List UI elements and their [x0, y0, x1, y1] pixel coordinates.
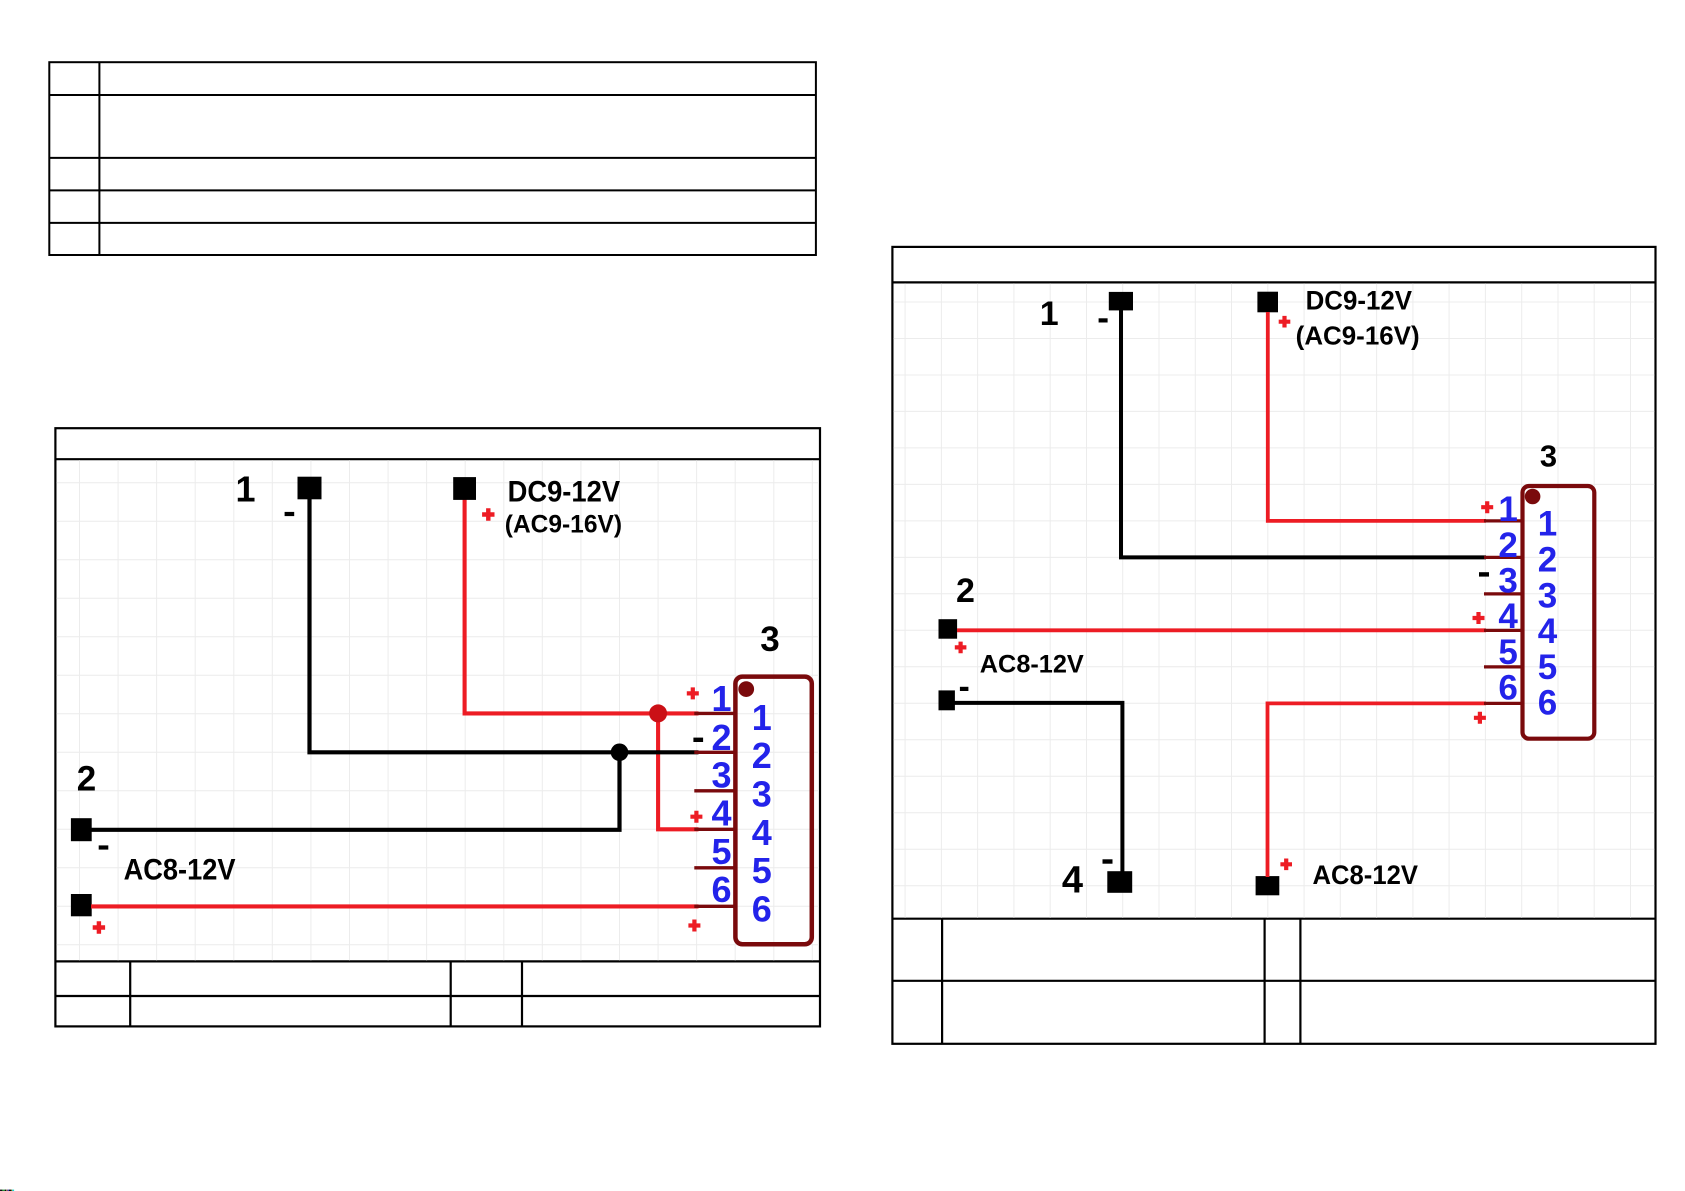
junction (black) on pin2 net: [611, 744, 629, 762]
left schematic sheet frame: [55, 428, 820, 1026]
minus mark at connector 1 (right sheet): [1099, 318, 1108, 322]
svg-text:3: 3: [752, 774, 772, 815]
minus mark at connector 2: [99, 845, 109, 849]
svg-text:6: 6: [711, 869, 731, 910]
svg-text:3: 3: [1538, 576, 1557, 615]
plus mark at pin 4: [690, 811, 702, 823]
AC input pad positive (right sheet bottom): [1256, 876, 1280, 895]
svg-text:1: 1: [1498, 490, 1517, 529]
connector 3 pin stubs: [694, 713, 734, 906]
minus mark at pin 2: [693, 738, 703, 742]
svg-text:DC9-12V: DC9-12V: [508, 475, 620, 508]
right schematic sheet frame: [892, 247, 1655, 1044]
plus mark at connector 2 positive: [93, 921, 105, 933]
pin numbers (inside connector 3): [752, 697, 772, 930]
connector 3 polarity dot: [738, 681, 754, 697]
svg-text:6: 6: [1538, 684, 1557, 723]
svg-text:2: 2: [711, 717, 731, 758]
junction (red) on pin1 net: [649, 704, 667, 722]
minus mark at connector 2 lower pad (right sheet): [960, 687, 969, 691]
connector 1 pad negative (right sheet): [1109, 292, 1133, 311]
svg-text:6: 6: [1498, 669, 1517, 708]
svg-text:5: 5: [711, 831, 731, 872]
connector 2 pad positive (right sheet): [939, 619, 958, 639]
svg-text:4: 4: [1538, 612, 1558, 651]
svg-text:1: 1: [235, 469, 255, 510]
svg-text:5: 5: [752, 850, 772, 891]
wire: connector2 positive to pin 6 (red): [91, 904, 699, 908]
plus mark at DC pad: [482, 508, 494, 520]
connector 3 pin stubs (right sheet): [1484, 521, 1521, 704]
wire: connector2 negative to junction (black): [91, 752, 620, 830]
svg-text:1: 1: [711, 678, 731, 719]
scan artifact strip bottom-left: [0, 1190, 14, 1191]
connector 3 body (right sheet): [1523, 486, 1595, 739]
wire: AC positive to pin 6 (red, right sheet): [1268, 703, 1487, 877]
plus mark at pin 4 (right sheet): [1473, 612, 1485, 624]
plus mark at pin 1 (right sheet): [1481, 501, 1493, 513]
plus mark at DC pad (right sheet): [1279, 316, 1291, 328]
connector 2 lower pad negative (right sheet): [939, 690, 955, 710]
wire: connector1 negative to pin 2 (black): [310, 499, 699, 753]
svg-text:4: 4: [1062, 859, 1083, 901]
connector 4 pad negative: [1107, 871, 1132, 893]
svg-text:4: 4: [752, 812, 772, 853]
svg-text:2: 2: [77, 760, 96, 799]
DC input pad positive (right sheet): [1257, 292, 1278, 313]
wire: connector2 negative to connector 4 (black, right sheet): [955, 703, 1123, 872]
plus mark at pin 1: [687, 687, 699, 699]
connector 2 pad (positive): [71, 894, 92, 916]
svg-text:6: 6: [752, 888, 772, 929]
pin numbers (wire side): [711, 678, 731, 910]
wire: junction to pin 4 (red): [658, 713, 698, 829]
connector 3 polarity dot (right sheet): [1525, 489, 1541, 505]
wire: connector2 positive to pin 4 (red, right sheet): [957, 628, 1486, 632]
minus mark at connector 4: [1103, 859, 1113, 863]
plus mark at pin 6: [688, 920, 700, 932]
svg-text:AC8-12V: AC8-12V: [1313, 860, 1419, 890]
revision table (top left, empty): [49, 62, 816, 255]
wire: connector1 negative to pin 2 (black, right sheet): [1121, 310, 1486, 557]
svg-text:(AC9-16V): (AC9-16V): [505, 511, 622, 539]
svg-text:2: 2: [1538, 541, 1557, 580]
svg-text:2: 2: [752, 735, 772, 776]
svg-text:4: 4: [1498, 597, 1518, 636]
svg-text:3: 3: [711, 755, 731, 796]
svg-text:4: 4: [711, 792, 731, 833]
connector 1 pad (negative): [298, 477, 322, 500]
svg-text:(AC9-16V): (AC9-16V): [1296, 323, 1420, 351]
svg-text:AC8-12V: AC8-12V: [980, 651, 1084, 679]
svg-text:AC8-12V: AC8-12V: [124, 854, 236, 887]
connector 3 body: [735, 677, 811, 945]
pin numbers inside connector 3 (right sheet): [1538, 505, 1558, 723]
svg-text:3: 3: [1498, 562, 1517, 601]
svg-text:2: 2: [956, 572, 975, 610]
svg-text:3: 3: [760, 620, 779, 659]
svg-text:5: 5: [1538, 648, 1557, 687]
svg-text:5: 5: [1498, 633, 1517, 672]
svg-text:1: 1: [1040, 295, 1059, 333]
minus mark at connector 1: [285, 512, 295, 516]
pin numbers wire side (right sheet): [1498, 490, 1518, 707]
svg-text:DC9-12V: DC9-12V: [1306, 285, 1413, 315]
plus mark at connector 2 (right sheet): [955, 642, 967, 654]
connector 2 pad (negative): [71, 818, 92, 841]
minus mark at pin 3 (right sheet): [1479, 572, 1489, 576]
DC input pad (positive): [453, 477, 476, 500]
svg-text:3: 3: [1540, 438, 1557, 473]
wire: DC positive to pin 1 (red, right sheet): [1268, 312, 1486, 521]
svg-text:1: 1: [1538, 505, 1557, 544]
wire: DC positive to pin 1 (red): [465, 499, 699, 713]
plus mark at AC pad (right sheet bottom): [1280, 859, 1292, 871]
svg-text:2: 2: [1498, 526, 1517, 565]
svg-text:1: 1: [752, 697, 772, 738]
plus mark at pin 6 (right sheet): [1474, 712, 1486, 724]
